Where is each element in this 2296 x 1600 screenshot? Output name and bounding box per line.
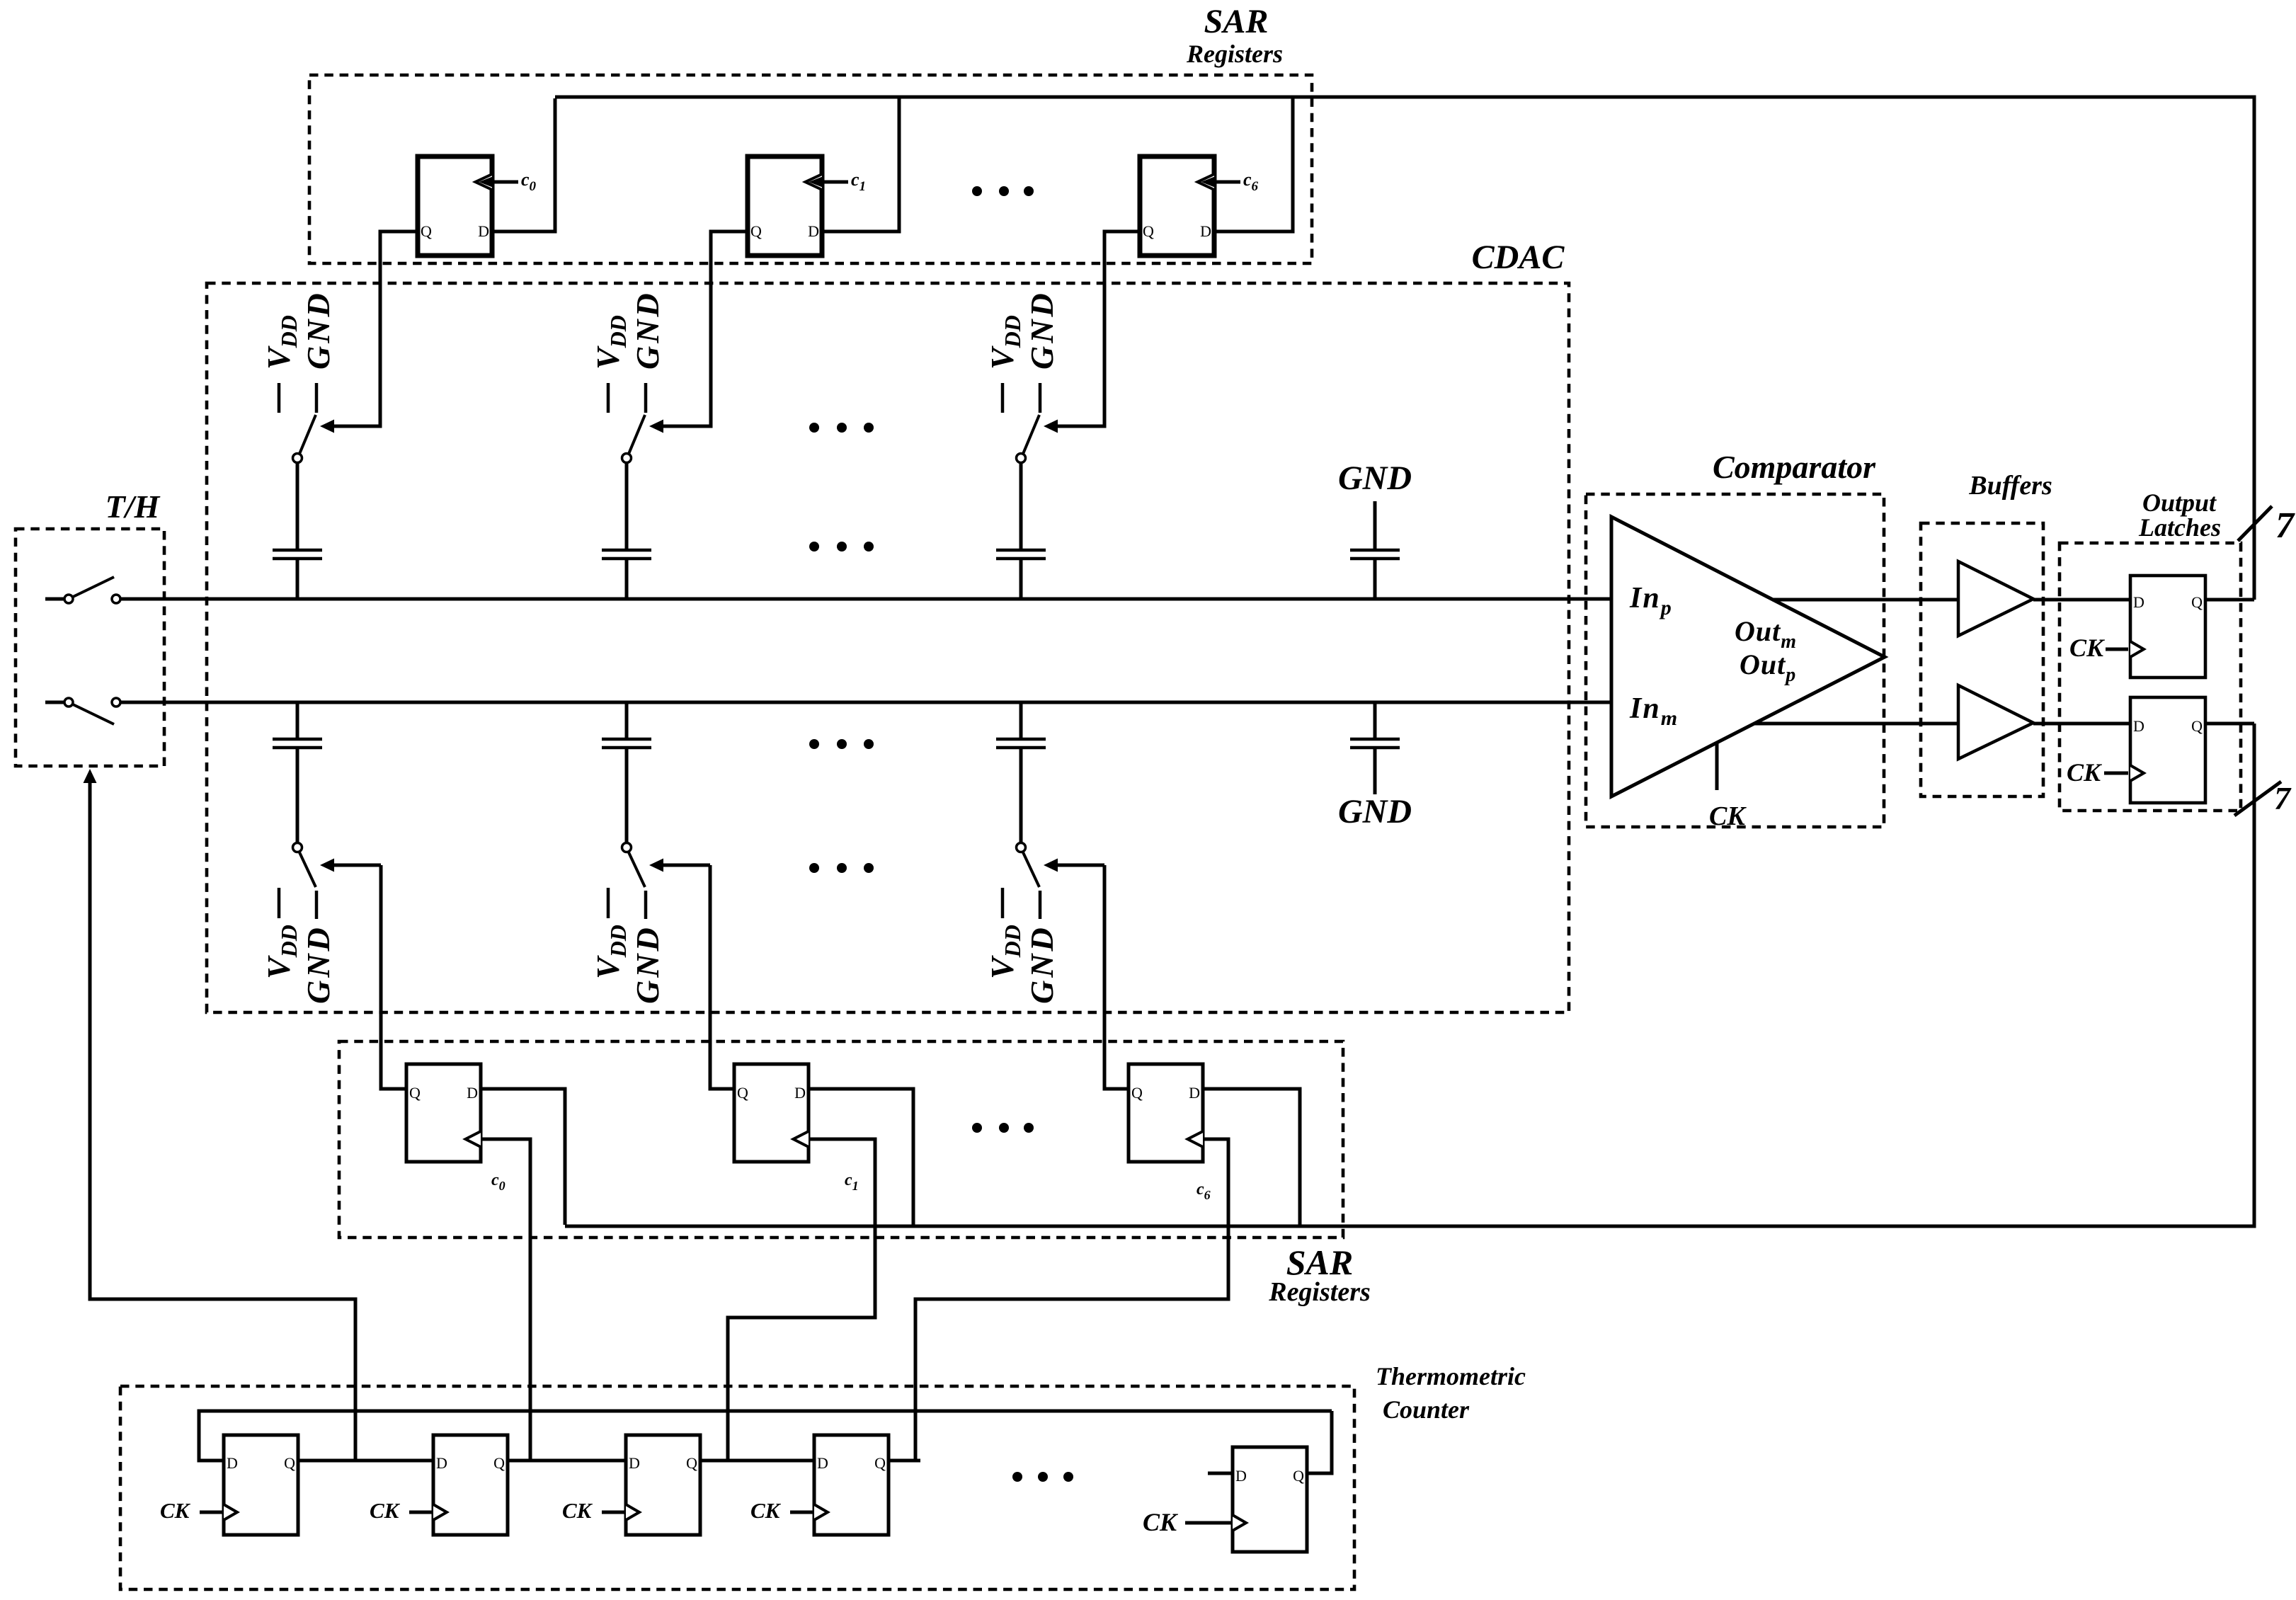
label VDD/GND top column 1 bbox=[261, 290, 336, 370]
wire top FF1 D to bus bbox=[492, 98, 555, 232]
wire bottom FF3 Q to switch control bbox=[1104, 865, 1129, 1089]
wire top FF2 Q to switch S2 control bbox=[662, 232, 748, 426]
wire GND label to top reference capacitor bbox=[1373, 501, 1377, 551]
label CK comparator bbox=[1709, 801, 1747, 831]
label GND bottom reference bbox=[1338, 793, 1412, 830]
svg-text:D: D bbox=[794, 1084, 806, 1102]
svg-text:D: D bbox=[2133, 593, 2144, 611]
ellipsis top SAR registers bbox=[972, 186, 1034, 196]
capacitor bottom reference to GND bbox=[1350, 739, 1400, 748]
svg-text:D: D bbox=[436, 1454, 447, 1472]
flip-flop output latch top bbox=[2130, 576, 2205, 678]
flip-flop counter last stage bbox=[1233, 1447, 1307, 1552]
wire bottom FF3 D to bus bbox=[1203, 1089, 1300, 1225]
label CK bottom latch bbox=[2067, 758, 2103, 787]
svg-text:D: D bbox=[1189, 1084, 1200, 1102]
wire T/H top input stub bbox=[45, 598, 64, 601]
svg-text:GND: GND bbox=[1024, 925, 1060, 1004]
label VDD/GND bottom column 2 bbox=[590, 925, 666, 1004]
label CK counter 2 bbox=[370, 1498, 401, 1523]
svg-text:GND: GND bbox=[1338, 793, 1412, 830]
op-amp comparator triangle bbox=[1611, 517, 1885, 796]
label CK counter last bbox=[1143, 1508, 1179, 1536]
label Registers (bottom) bbox=[1268, 1277, 1371, 1307]
block CDAC box bbox=[207, 283, 1569, 1012]
wire bottom reference capacitor to GND label bbox=[1373, 748, 1377, 794]
arrow control of bottom switch column 1 bbox=[320, 859, 334, 872]
label VDD/GND top column 3 bbox=[984, 290, 1060, 370]
label Comparator bbox=[1713, 449, 1876, 485]
flip-flop counter stage 2 bbox=[433, 1435, 508, 1535]
block SAR Registers (top) box bbox=[309, 75, 1312, 263]
ellipsis CDAC bottom capacitor row bbox=[809, 739, 874, 749]
svg-text:Q: Q bbox=[493, 1454, 505, 1472]
wire top buffer to top latch D bbox=[2033, 598, 2130, 602]
svg-text:Q: Q bbox=[421, 222, 432, 240]
svg-text:Q: Q bbox=[1131, 1084, 1143, 1102]
capacitor bottom CDAC column 1 bbox=[273, 739, 322, 748]
switch bottom CDAC column 3 bbox=[1003, 843, 1040, 920]
arrow control of top switch S3 bbox=[1044, 420, 1058, 433]
block SAR Registers (bottom) box bbox=[339, 1041, 1343, 1238]
svg-text:7: 7 bbox=[2274, 780, 2292, 816]
wire top switch pole to capacitor column 3 bbox=[1020, 463, 1023, 551]
label CK counter 4 bbox=[750, 1498, 782, 1523]
wire bottom capacitor to switch pole column 1 bbox=[296, 748, 299, 843]
flip-flop top SAR bit c6 bbox=[1140, 156, 1259, 256]
bus slash bottom /7 bbox=[2234, 782, 2281, 816]
label Output bbox=[2142, 488, 2217, 517]
wire comparator CK stub bbox=[1715, 743, 1719, 790]
svg-text:SAR: SAR bbox=[1286, 1242, 1354, 1282]
block Comparator box bbox=[1586, 494, 1884, 827]
wire CK stub counter 4 bbox=[790, 1511, 813, 1514]
wire c1 net counter to bottom FF2 clock bbox=[728, 1139, 875, 1461]
wire bottom FF2 Q to switch control bbox=[710, 865, 734, 1089]
svg-text:D: D bbox=[227, 1454, 238, 1472]
label CDAC bbox=[1472, 239, 1565, 276]
svg-text:Q: Q bbox=[1293, 1467, 1304, 1485]
wire CK stub counter last bbox=[1185, 1521, 1231, 1525]
wire bottom capacitor to switch pole column 2 bbox=[625, 748, 629, 843]
svg-text:Latches: Latches bbox=[2138, 513, 2221, 542]
label VDD/GND top column 2 bbox=[590, 290, 666, 370]
label VDD/GND bottom column 1 bbox=[261, 925, 336, 1004]
wire top capacitor to Inp rail column 3 bbox=[1020, 559, 1023, 599]
wire Inm rail to bottom capacitor column 2 bbox=[625, 702, 629, 739]
wire CK stub counter 3 bbox=[602, 1511, 624, 1514]
svg-text:Q: Q bbox=[686, 1454, 697, 1472]
wire Inp analog rail bbox=[120, 598, 1611, 601]
svg-text:CK: CK bbox=[160, 1498, 191, 1523]
bus slash top /7 bbox=[2238, 506, 2272, 541]
block Buffers box bbox=[1921, 523, 2043, 796]
flip-flop bottom SAR bit c0 bbox=[406, 1064, 481, 1162]
buffer bottom triangle bbox=[1958, 685, 2033, 759]
svg-text:Buffers: Buffers bbox=[1968, 471, 2052, 501]
label CK counter 3 bbox=[562, 1498, 593, 1523]
wire top feedback bus (latch Q to SAR registers) bbox=[555, 97, 2254, 600]
ellipsis bottom SAR registers bbox=[972, 1123, 1034, 1133]
wire comparator Outm to top buffer bbox=[1772, 598, 1958, 602]
switch top CDAC column 1 bbox=[279, 383, 316, 463]
svg-text:Q: Q bbox=[2191, 717, 2203, 735]
label 7 (top bus width) bbox=[2275, 505, 2295, 546]
label T/H bbox=[105, 488, 161, 525]
wire Inm rail to bottom capacitor column 3 bbox=[1020, 702, 1023, 739]
wire counter Q3 to D4 bbox=[700, 1459, 814, 1463]
label SAR (bottom) bbox=[1286, 1242, 1354, 1282]
wire counter Q1 to D2 bbox=[298, 1459, 433, 1463]
flip-flop counter stage 4 bbox=[814, 1435, 889, 1535]
label Buffers bbox=[1968, 471, 2052, 501]
label Registers (top) bbox=[1186, 40, 1283, 68]
svg-text:CDAC: CDAC bbox=[1472, 239, 1565, 276]
svg-text:GND: GND bbox=[1338, 459, 1412, 497]
arrow control of top switch S1 bbox=[320, 420, 334, 433]
wire counter Q4 to ellipsis bbox=[889, 1459, 920, 1463]
svg-text:Q: Q bbox=[284, 1454, 295, 1472]
switch bottom CDAC column 1 bbox=[279, 843, 316, 920]
label Inp bbox=[1629, 582, 1673, 619]
svg-text:CK: CK bbox=[1709, 801, 1747, 831]
label c0 bbox=[491, 1171, 506, 1193]
wire bottom latch Q to bottom bus bbox=[2205, 722, 2254, 726]
svg-text:GND: GND bbox=[629, 925, 666, 1004]
switch bottom CDAC column 2 bbox=[608, 843, 646, 920]
svg-text:D: D bbox=[817, 1454, 828, 1472]
svg-text:D: D bbox=[1200, 222, 1211, 240]
wire comparator Outp to bottom buffer bbox=[1754, 722, 1958, 726]
svg-text:CK: CK bbox=[2069, 634, 2106, 662]
svg-text:CK: CK bbox=[1143, 1508, 1179, 1536]
wire bottom switch control column 1 bbox=[333, 864, 381, 867]
wire c6 net counter to bottom FF3 clock bbox=[915, 1139, 1228, 1461]
label Latches bbox=[2138, 513, 2221, 542]
wire top latch Q to top bus bbox=[2205, 598, 2254, 602]
label c6 bbox=[1196, 1180, 1211, 1202]
wire top FF2 D to bus bbox=[822, 98, 899, 232]
wire counter Q2 to D3 bbox=[508, 1459, 626, 1463]
svg-text:CK: CK bbox=[2067, 758, 2103, 787]
wire top reference capacitor to Inp rail bbox=[1373, 559, 1377, 599]
wire counter feedback bus bbox=[199, 1411, 1332, 1461]
svg-text:GND: GND bbox=[1024, 290, 1060, 370]
svg-text:7: 7 bbox=[2275, 505, 2295, 546]
flip-flop bottom SAR bit c6 bbox=[1129, 1064, 1203, 1162]
arrow control of bottom switch column 3 bbox=[1044, 859, 1058, 872]
svg-text:Q: Q bbox=[409, 1084, 421, 1102]
wire CK stub bottom latch bbox=[2104, 772, 2128, 775]
wire top FF1 Q to switch S1 control bbox=[333, 232, 418, 426]
label VDD/GND bottom column 3 bbox=[984, 925, 1060, 1004]
wire CK stub counter 1 bbox=[200, 1511, 222, 1514]
switch T/H bottom (track switch) bbox=[64, 698, 120, 724]
wire bottom FF2 D to bus bbox=[809, 1089, 913, 1225]
switch top CDAC column 2 bbox=[608, 383, 646, 463]
svg-text:Counter: Counter bbox=[1383, 1395, 1470, 1424]
wire top FF3 Q to switch S3 control bbox=[1056, 232, 1140, 426]
wire top capacitor to Inp rail column 1 bbox=[296, 559, 299, 599]
svg-text:CK: CK bbox=[562, 1498, 593, 1523]
svg-text:Q: Q bbox=[1143, 222, 1154, 240]
label CK top latch bbox=[2069, 634, 2106, 662]
block Thermometric Counter box bbox=[120, 1386, 1354, 1589]
capacitor top reference to GND bbox=[1350, 550, 1400, 559]
svg-text:GND: GND bbox=[629, 290, 666, 370]
svg-text:GND: GND bbox=[300, 290, 336, 370]
svg-text:Q: Q bbox=[737, 1084, 748, 1102]
label GND top reference bbox=[1338, 459, 1412, 497]
label Inm bbox=[1629, 692, 1679, 730]
switch T/H top (track switch) bbox=[64, 577, 120, 603]
svg-text:Comparator: Comparator bbox=[1713, 449, 1876, 485]
wire Inm analog rail bbox=[120, 701, 1611, 704]
svg-text:D: D bbox=[2133, 717, 2144, 735]
ellipsis counter stages bbox=[1012, 1472, 1073, 1482]
wire bottom FF1 D to bus bbox=[481, 1089, 565, 1225]
capacitor top CDAC column 1 bbox=[273, 550, 322, 559]
wire thermometric counter Q1 to T/H control bbox=[90, 782, 355, 1461]
wire top switch control column 3 bbox=[1056, 425, 1104, 428]
wire top FF3 D to bus bbox=[1214, 98, 1293, 232]
svg-text:Q: Q bbox=[2191, 593, 2203, 611]
wire bottom buffer to bottom latch D bbox=[2033, 722, 2130, 726]
wire top switch control column 2 bbox=[662, 425, 710, 428]
svg-text:Registers: Registers bbox=[1186, 40, 1283, 68]
svg-text:D: D bbox=[629, 1454, 640, 1472]
wire top capacitor to Inp rail column 2 bbox=[625, 559, 629, 599]
capacitor top CDAC column 3 bbox=[996, 550, 1046, 559]
flip-flop counter stage 3 bbox=[626, 1435, 700, 1535]
label c1 bbox=[845, 1171, 859, 1193]
wire bottom switch control column 3 bbox=[1056, 864, 1104, 867]
wire bottom capacitor to switch pole column 3 bbox=[1020, 748, 1023, 843]
arrow control of bottom switch column 2 bbox=[649, 859, 663, 872]
svg-text:D: D bbox=[478, 222, 489, 240]
capacitor bottom CDAC column 3 bbox=[996, 739, 1046, 748]
buffer top triangle bbox=[1958, 561, 2033, 636]
arrow control of top switch S2 bbox=[649, 420, 663, 433]
ellipsis CDAC top switch row bbox=[809, 423, 874, 433]
capacitor top CDAC column 2 bbox=[602, 550, 651, 559]
svg-text:GND: GND bbox=[300, 925, 336, 1004]
label Counter bbox=[1383, 1395, 1470, 1424]
wire T/H bottom input stub bbox=[45, 701, 64, 704]
wire bottom switch control column 2 bbox=[662, 864, 710, 867]
ellipsis CDAC top capacitor row bbox=[809, 542, 874, 552]
svg-text:Q: Q bbox=[750, 222, 762, 240]
wire Inm rail to bottom reference capacitor bbox=[1373, 702, 1377, 739]
svg-text:D: D bbox=[467, 1084, 478, 1102]
svg-text:T/H: T/H bbox=[105, 488, 161, 525]
label SAR (top) bbox=[1204, 3, 1269, 40]
wire CK stub counter 2 bbox=[409, 1511, 432, 1514]
svg-text:CK: CK bbox=[750, 1498, 782, 1523]
label Thermometric bbox=[1376, 1362, 1526, 1390]
wire Inm rail to bottom capacitor column 1 bbox=[296, 702, 299, 739]
label Outm bbox=[1735, 615, 1797, 653]
flip-flop counter stage 1 bbox=[224, 1435, 298, 1535]
svg-text:Q: Q bbox=[874, 1454, 886, 1472]
wire counter D stub last stage bbox=[1208, 1472, 1233, 1475]
arrow T/H control bbox=[84, 769, 97, 783]
wire bottom feedback bus (latch Q to SAR registers) bbox=[565, 724, 2254, 1226]
svg-text:CK: CK bbox=[370, 1498, 401, 1523]
wire bottom FF1 Q to switch control bbox=[381, 865, 406, 1089]
wire c0 net counter to bottom FF1 clock bbox=[481, 1139, 530, 1461]
wire top switch pole to capacitor column 1 bbox=[296, 463, 299, 551]
flip-flop top SAR bit c1 bbox=[748, 156, 866, 256]
switch top CDAC column 3 bbox=[1003, 383, 1040, 463]
flip-flop output latch bottom bbox=[2130, 697, 2205, 803]
flip-flop top SAR bit c0 bbox=[418, 156, 537, 256]
block T/H sample-and-hold box bbox=[16, 529, 164, 766]
svg-text:SAR: SAR bbox=[1204, 3, 1269, 40]
svg-text:D: D bbox=[1235, 1467, 1247, 1485]
label CK counter 1 bbox=[160, 1498, 191, 1523]
svg-text:D: D bbox=[808, 222, 819, 240]
wire counter last Q to feedback bbox=[1307, 1411, 1332, 1473]
svg-text:Output: Output bbox=[2142, 488, 2217, 517]
label Outp bbox=[1740, 648, 1796, 686]
svg-text:Registers: Registers bbox=[1268, 1277, 1371, 1307]
block Output Latches box bbox=[2060, 543, 2241, 811]
flip-flop bottom SAR bit c1 bbox=[734, 1064, 809, 1162]
wire CK stub top latch bbox=[2106, 648, 2128, 651]
svg-text:Thermometric: Thermometric bbox=[1376, 1362, 1526, 1390]
ellipsis CDAC bottom switch row bbox=[809, 863, 874, 873]
wire top switch control column 1 bbox=[333, 425, 381, 428]
label 7 (bottom bus width) bbox=[2274, 780, 2292, 816]
capacitor bottom CDAC column 2 bbox=[602, 739, 651, 748]
wire top switch pole to capacitor column 2 bbox=[625, 463, 629, 551]
